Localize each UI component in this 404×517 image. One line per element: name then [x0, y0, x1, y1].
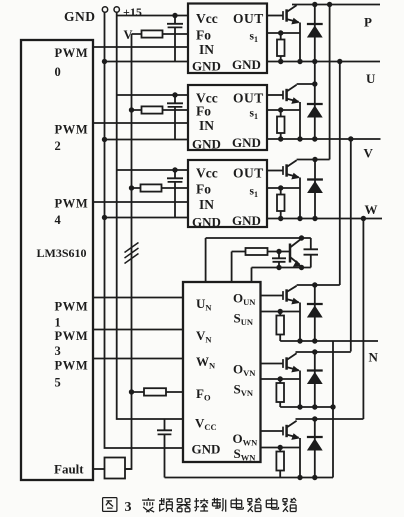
svg-text:s1: s1	[250, 186, 258, 200]
resistor Rb3	[276, 452, 284, 471]
wire N descent	[332, 341, 334, 478]
node Db1 bottom	[312, 338, 317, 343]
node C4 bottom	[276, 265, 281, 270]
diode D3 triangle	[307, 181, 323, 193]
bundle slash marks	[125, 243, 139, 264]
node Rg3 bottom	[278, 216, 283, 221]
node V-R2 tap	[129, 107, 134, 112]
diode D2 triangle	[307, 105, 323, 117]
wire PWM5 to WN	[93, 358, 183, 360]
gate driver U3 box	[188, 160, 267, 227]
node Q2 emitter	[297, 136, 302, 141]
wire O pin to gate b1	[261, 295, 284, 297]
svg-text:IN: IN	[199, 197, 214, 212]
svg-text:0: 0	[55, 65, 61, 79]
svg-text:Fault: Fault	[54, 462, 84, 477]
wire Rg1 top lead	[280, 33, 282, 40]
svg-text:W: W	[365, 202, 378, 217]
node Q3 emitter	[297, 216, 302, 221]
svg-text:VCC: VCC	[195, 416, 217, 433]
svg-text:GND: GND	[192, 215, 221, 230]
wire OUT2 to gate	[267, 94, 283, 96]
IGBT Q3 gate bar	[282, 166, 284, 175]
resistor Rg2	[277, 117, 285, 134]
wire Rb2 top lead	[279, 379, 281, 383]
node N-descent b2	[330, 404, 335, 409]
U bus	[267, 61, 380, 63]
node D2 bottom	[312, 136, 317, 141]
node TR4 collector	[299, 235, 304, 240]
capacitor C4	[272, 252, 286, 268]
IC U4 box	[183, 282, 261, 462]
wire Q6 emitter down	[299, 438, 301, 478]
wire +15 rail vertical	[117, 12, 183, 419]
wire P descent	[329, 5, 331, 160]
wire V to RFO	[132, 391, 184, 393]
wire OUT1 to gate	[267, 15, 283, 17]
svg-text:OVN: OVN	[233, 362, 256, 379]
wire V to R1	[132, 33, 189, 35]
svg-text:4: 4	[55, 213, 62, 227]
wire Rb3 bottom lead	[279, 471, 281, 478]
svg-text:OUT: OUT	[233, 11, 264, 26]
diode Db3 triangle	[307, 438, 323, 450]
wire PWM3 to VN	[93, 329, 183, 331]
wire s1 line row2	[267, 109, 300, 111]
wire Q4 emitter down	[299, 303, 301, 342]
N bus	[280, 340, 378, 342]
gate driver U2 box	[188, 85, 267, 150]
wire Rg2 bottom lead	[280, 133, 282, 139]
diode Db1 wire	[314, 285, 316, 341]
resistor R4	[246, 248, 268, 255]
node V-RFO tap	[129, 389, 134, 394]
wire GND rail vertical	[105, 12, 184, 448]
fault shunt box	[105, 458, 126, 479]
wire TR4 base line	[232, 252, 246, 283]
svg-text:U: U	[366, 71, 376, 86]
wire fault box to V rail	[125, 468, 132, 470]
resistor Rb1	[276, 316, 284, 335]
wire O pin to gate b2	[261, 363, 284, 365]
IGBT Q1 emitter lead	[287, 19, 299, 22]
wire GND to driver2	[105, 139, 189, 141]
resistor Rg3	[277, 195, 285, 212]
node D1 bottom	[312, 59, 317, 64]
wire PWM2 to IN2	[93, 122, 188, 124]
node Q4 emitter	[297, 338, 302, 343]
wire TR4 emitter line	[252, 268, 302, 283]
wire Q1 emitter down	[299, 23, 301, 62]
diode Db1 cathode bar	[307, 303, 323, 305]
diode D1 triangle	[307, 25, 323, 37]
svg-text:s1: s1	[250, 31, 258, 45]
svg-text:Fo: Fo	[196, 28, 211, 43]
IGBT Q3 emitter lead	[287, 174, 299, 177]
svg-text:GND: GND	[232, 213, 261, 228]
MCU LM3S610 box	[21, 40, 93, 480]
wire S line b3	[261, 447, 301, 449]
wire +15 to driver3 Vcc	[117, 169, 188, 171]
IGBT Q3 collector lead	[287, 160, 330, 168]
node C3 top	[172, 167, 177, 172]
wire U descent	[339, 62, 341, 286]
node GND-driver3	[102, 215, 107, 220]
IGBT Q6 gate bar	[282, 427, 284, 436]
node TR4 emitter	[299, 265, 304, 270]
svg-text:Vcc: Vcc	[196, 11, 218, 26]
node Db3 bottom	[312, 475, 317, 480]
node D3 bottom	[312, 216, 317, 221]
diode Db1 triangle	[307, 305, 323, 317]
wire emitter line b3	[165, 477, 334, 479]
svg-text:s1: s1	[250, 108, 258, 122]
svg-text:SUN: SUN	[234, 311, 254, 328]
wire W descent	[362, 219, 364, 420]
resistor R1	[142, 30, 163, 37]
wire Rb2 bottom lead	[279, 402, 281, 407]
svg-text:PWM: PWM	[55, 123, 89, 137]
terminal GND	[102, 7, 107, 12]
node V-descent	[348, 136, 353, 141]
node Rb2 top	[278, 376, 283, 381]
svg-text:VN: VN	[196, 328, 212, 345]
svg-text:PWM: PWM	[55, 300, 89, 314]
wire C6 to N line	[164, 448, 166, 478]
wire Rb1 top lead	[279, 312, 281, 316]
node Rg3 top	[278, 185, 283, 190]
wire Rb3 top lead	[279, 448, 281, 452]
resistor Rg1	[277, 40, 285, 57]
resistor RFO	[144, 388, 166, 395]
svg-text:IN: IN	[199, 42, 214, 57]
IGBT Q3 body bar	[285, 164, 288, 176]
node C4 top	[276, 249, 281, 254]
IGBT Q5 collector lead	[287, 352, 351, 360]
resistor R2	[142, 106, 163, 113]
svg-text:IN: IN	[199, 118, 214, 133]
resistor Rb2	[276, 383, 284, 402]
node U-descent	[337, 59, 342, 64]
diode D1 cathode bar	[307, 23, 323, 25]
node Rg2 top	[278, 107, 283, 112]
wire Rb1 bottom lead	[279, 335, 281, 342]
svg-text:GND: GND	[192, 137, 221, 152]
svg-text:P: P	[364, 15, 372, 30]
IGBT Q4 collector lead	[287, 285, 340, 292]
node Db1 top	[312, 282, 317, 287]
wire Q2 emitter down	[299, 102, 301, 139]
capacitor C1	[167, 16, 183, 62]
capacitor C3	[167, 170, 183, 218]
node Q1 emitter	[297, 59, 302, 64]
diode D1 wire	[314, 5, 316, 62]
svg-text:1: 1	[55, 316, 61, 330]
svg-text:OUT: OUT	[233, 166, 264, 181]
node Rg1 bottom	[278, 59, 283, 64]
node Db2 bottom	[312, 404, 317, 409]
transistor TR4 emitter lead	[290, 257, 300, 265]
wire Rg3 top lead	[280, 188, 282, 195]
svg-text:Vcc: Vcc	[196, 166, 218, 181]
svg-text:3: 3	[55, 344, 61, 358]
node Q5 emitter	[297, 404, 302, 409]
wire s1 line row3	[267, 187, 300, 189]
wire Q5 emitter down	[299, 371, 301, 408]
svg-text:LM3S610: LM3S610	[37, 246, 87, 260]
wire O pin to gate b3	[261, 430, 284, 432]
svg-text:OUT: OUT	[233, 91, 264, 106]
svg-text:GND: GND	[232, 135, 261, 150]
svg-text:OUN: OUN	[233, 291, 256, 308]
svg-text:2: 2	[55, 139, 61, 153]
svg-text:3: 3	[125, 500, 132, 515]
wire Q2 collector up	[314, 62, 316, 85]
svg-text:+15: +15	[123, 5, 142, 19]
svg-text:Fo: Fo	[196, 104, 211, 119]
diode D3 cathode bar	[307, 178, 323, 180]
node Q2 collector junction	[312, 81, 317, 86]
node GND-driver2	[102, 137, 107, 142]
node D1 top	[312, 2, 317, 7]
IGBT Q1 gate bar	[282, 11, 284, 20]
wire +15 to driver2 Vcc	[117, 94, 188, 96]
wire V to R2	[132, 109, 189, 111]
IGBT Q4 gate bar	[282, 291, 284, 300]
node W-descent	[361, 216, 366, 221]
node D3 top	[312, 157, 317, 162]
svg-text:SVN: SVN	[234, 382, 254, 399]
node Q6 emitter	[297, 475, 302, 480]
IGBT Q2 body bar	[285, 89, 288, 101]
wire PWM0 to IN1	[93, 46, 188, 48]
IGBT Q6 body bar	[285, 425, 288, 437]
node C2 top	[172, 92, 177, 97]
svg-text:FO: FO	[196, 386, 211, 403]
terminal +15	[114, 7, 119, 12]
wire R4 to base	[268, 251, 291, 253]
svg-text:5: 5	[55, 376, 61, 390]
svg-text:GND: GND	[64, 9, 96, 24]
wire GND to driver1	[105, 61, 189, 63]
IGBT Q4 emitter lead	[287, 299, 299, 302]
IGBT Q6 collector lead	[287, 419, 364, 428]
node Rg1 top	[278, 30, 283, 35]
node Rb1 top	[278, 309, 283, 314]
diode Db3 cathode bar	[307, 436, 323, 438]
wire S line b1	[261, 311, 301, 313]
capacitor C6	[157, 419, 172, 448]
node Db2 top	[312, 349, 317, 354]
wire PWM1 to UN	[93, 297, 183, 299]
svg-text:WN: WN	[196, 354, 216, 371]
P bus	[292, 4, 380, 6]
svg-text:PWM: PWM	[55, 329, 89, 343]
IGBT Q1 body bar	[285, 9, 288, 21]
wire GND to driver3	[105, 217, 189, 219]
wire PWM4 to IN3	[93, 201, 188, 203]
caption figure glyphs	[103, 498, 297, 512]
node P top	[327, 2, 332, 7]
diode Db2 wire	[314, 352, 316, 407]
wire +15 to driver1 Vcc	[117, 15, 188, 17]
node Rg2 bottom	[278, 136, 283, 141]
svg-text:PWM: PWM	[55, 359, 89, 373]
IGBT Q6 emitter lead	[287, 435, 299, 438]
wire V rail vertical	[125, 34, 132, 469]
svg-text:PWM: PWM	[55, 46, 89, 60]
node GND-driver1	[102, 59, 107, 64]
svg-text:Fo: Fo	[196, 182, 211, 197]
IGBT Q2 emitter lead	[287, 99, 299, 102]
svg-text:SWN: SWN	[234, 446, 257, 463]
diode Db3 wire	[314, 419, 316, 478]
IGBT Q5 body bar	[285, 357, 288, 369]
node Db3 top	[312, 416, 317, 421]
diode D2 wire	[314, 84, 316, 139]
wire OUT3 to gate	[267, 170, 283, 172]
svg-text:UN: UN	[196, 296, 212, 313]
transistor TR4 collector lead	[290, 239, 301, 248]
svg-text:GND: GND	[232, 57, 261, 72]
wire V descent	[350, 139, 352, 352]
diode D3 wire	[314, 160, 316, 219]
wire TR4 collector line	[206, 238, 302, 282]
svg-text:PWM: PWM	[55, 197, 89, 211]
wire V to R3	[132, 187, 189, 189]
svg-text:N: N	[369, 350, 379, 365]
node C1 top	[172, 13, 177, 18]
capacitor C5	[302, 238, 319, 268]
transistor TR4 base bar	[289, 244, 292, 263]
W bus	[267, 218, 382, 220]
node Rb3 top	[278, 445, 283, 450]
IGBT Q2 gate bar	[282, 91, 284, 100]
wire Fault out	[93, 468, 105, 470]
resistor R3	[141, 184, 162, 191]
wire s1 line row1	[267, 32, 300, 34]
diode Db2 triangle	[307, 372, 323, 384]
IGBT Q5 emitter lead	[287, 367, 299, 370]
svg-text:GND: GND	[192, 59, 221, 74]
wire Q3 emitter down	[299, 178, 301, 219]
capacitor C2	[167, 95, 183, 140]
diode Db2 cathode bar	[307, 369, 323, 371]
IGBT Q1 collector lead	[287, 5, 297, 12]
diode D2 cathode bar	[307, 103, 323, 105]
wire Rg1 bottom lead	[280, 56, 282, 62]
wire Rg2 top lead	[280, 110, 282, 117]
svg-text:V: V	[364, 146, 374, 161]
V bus	[267, 138, 381, 140]
IGBT Q4 body bar	[285, 289, 288, 301]
node V-R3 tap	[129, 185, 134, 190]
svg-text:GND: GND	[192, 442, 221, 457]
wire emitter line b2	[280, 406, 333, 408]
gate driver U1 box	[188, 4, 267, 74]
wire S line b2	[261, 378, 301, 380]
IGBT Q2 collector lead	[287, 84, 315, 92]
wire Rg3 bottom lead	[280, 211, 282, 219]
IGBT Q5 gate bar	[282, 359, 284, 368]
